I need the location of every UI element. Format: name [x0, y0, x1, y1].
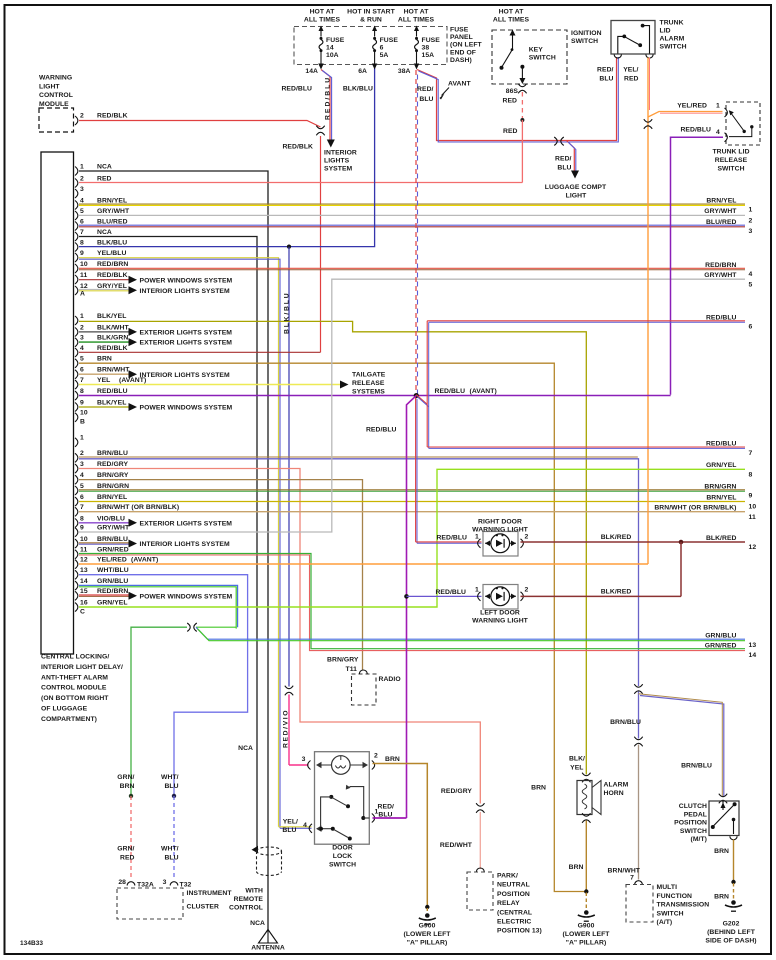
- svg-text:COMPARTMENT): COMPARTMENT): [41, 716, 97, 723]
- svg-text:BLK/BLU: BLK/BLU: [283, 292, 290, 334]
- svg-text:BRN/GRY: BRN/GRY: [97, 472, 129, 479]
- svg-text:WARNING LIGHT: WARNING LIGHT: [472, 618, 529, 625]
- svg-text:RED/BLU: RED/BLU: [366, 427, 397, 434]
- svg-text:RED/BRN: RED/BRN: [97, 261, 128, 268]
- svg-text:BRN/WHT (OR BRN/BLK): BRN/WHT (OR BRN/BLK): [654, 505, 736, 512]
- svg-text:8: 8: [749, 472, 753, 479]
- svg-text:INTERIOR LIGHTS SYSTEM: INTERIOR LIGHTS SYSTEM: [140, 372, 231, 379]
- svg-text:BLU/RED: BLU/RED: [706, 219, 737, 226]
- svg-text:BRN: BRN: [714, 848, 729, 855]
- svg-text:BLK/: BLK/: [569, 756, 585, 763]
- svg-text:BLU: BLU: [599, 76, 613, 83]
- svg-text:6: 6: [80, 367, 84, 374]
- svg-text:1: 1: [716, 103, 720, 110]
- svg-text:BLK/WHT: BLK/WHT: [97, 324, 129, 331]
- svg-text:POWER WINDOWS SYSTEM: POWER WINDOWS SYSTEM: [140, 277, 233, 284]
- svg-text:(LOWER LEFT: (LOWER LEFT: [563, 931, 611, 938]
- svg-text:6: 6: [80, 218, 84, 225]
- svg-text:5: 5: [749, 281, 753, 288]
- svg-text:SYSTEMS: SYSTEMS: [352, 389, 385, 396]
- svg-text:EXTERIOR LIGHTS SYSTEM: EXTERIOR LIGHTS SYSTEM: [140, 340, 233, 347]
- svg-text:DASH): DASH): [450, 57, 472, 64]
- svg-text:4: 4: [80, 345, 84, 352]
- svg-text:RED/BLK: RED/BLK: [282, 144, 313, 151]
- svg-text:FUSE: FUSE: [422, 37, 441, 44]
- svg-text:14A: 14A: [305, 68, 318, 75]
- svg-text:BRN/WHT (OR BRN/BLK): BRN/WHT (OR BRN/BLK): [97, 504, 179, 511]
- svg-text:BRN/BLU: BRN/BLU: [610, 719, 641, 726]
- svg-text:38: 38: [422, 45, 430, 52]
- svg-text:4: 4: [303, 822, 307, 829]
- svg-text:GRY/WHT: GRY/WHT: [704, 272, 737, 279]
- svg-text:FUSE: FUSE: [380, 37, 399, 44]
- svg-text:SWITCH: SWITCH: [529, 55, 556, 62]
- svg-text:T11: T11: [346, 666, 358, 673]
- svg-text:BLU: BLU: [557, 165, 571, 172]
- svg-text:C: C: [80, 609, 85, 616]
- svg-text:WARNING: WARNING: [39, 75, 72, 82]
- svg-text:8: 8: [80, 388, 84, 395]
- svg-text:BRN/YEL: BRN/YEL: [97, 494, 127, 501]
- svg-text:BRN: BRN: [714, 894, 729, 901]
- svg-text:RED/: RED/: [597, 67, 614, 74]
- svg-text:YEL/: YEL/: [283, 819, 298, 826]
- svg-text:13: 13: [749, 642, 757, 649]
- svg-text:10: 10: [749, 504, 757, 511]
- svg-text:16: 16: [80, 600, 88, 607]
- svg-text:7: 7: [80, 377, 84, 384]
- svg-text:WARNING LIGHT: WARNING LIGHT: [472, 526, 529, 533]
- svg-text:INTERIOR LIGHT DELAY/: INTERIOR LIGHT DELAY/: [41, 664, 123, 671]
- svg-text:8: 8: [80, 239, 84, 246]
- svg-text:12: 12: [749, 544, 757, 551]
- svg-text:NCA: NCA: [250, 920, 265, 927]
- svg-text:2: 2: [525, 534, 529, 541]
- svg-text:FUSE: FUSE: [450, 27, 469, 34]
- svg-text:1: 1: [749, 207, 753, 214]
- svg-text:EXTERIOR LIGHTS SYSTEM: EXTERIOR LIGHTS SYSTEM: [140, 330, 233, 337]
- svg-text:86S: 86S: [506, 88, 519, 95]
- svg-text:3: 3: [80, 461, 84, 468]
- svg-text:2: 2: [80, 324, 84, 331]
- svg-text:10: 10: [80, 410, 88, 417]
- svg-text:HOT AT: HOT AT: [404, 9, 430, 16]
- svg-text:11: 11: [80, 547, 87, 554]
- svg-text:BRN/WHT: BRN/WHT: [608, 868, 641, 875]
- svg-text:WHT/BLU: WHT/BLU: [97, 567, 129, 574]
- svg-text:GRN/: GRN/: [117, 846, 134, 853]
- svg-text:RED: RED: [502, 98, 517, 105]
- svg-text:BLK/RED: BLK/RED: [601, 534, 632, 541]
- svg-text:15: 15: [80, 588, 88, 595]
- svg-text:END OF: END OF: [450, 49, 476, 56]
- svg-text:BRN/BLU: BRN/BLU: [97, 450, 128, 457]
- svg-text:5: 5: [80, 483, 84, 490]
- svg-text:CONTROL: CONTROL: [39, 92, 73, 99]
- svg-text:BLK/RED: BLK/RED: [706, 535, 737, 542]
- svg-text:LOCK: LOCK: [333, 853, 352, 860]
- svg-text:RED/BLK: RED/BLK: [97, 272, 128, 279]
- svg-text:RED/BLU: RED/BLU: [435, 589, 466, 596]
- svg-text:7: 7: [749, 450, 753, 457]
- svg-text:GRN/YEL: GRN/YEL: [706, 462, 737, 469]
- svg-text:RED/WHT: RED/WHT: [440, 842, 473, 849]
- svg-text:RED/BLU: RED/BLU: [324, 76, 331, 120]
- svg-text:5: 5: [80, 356, 84, 363]
- svg-text:11: 11: [749, 514, 756, 521]
- svg-text:ELECTRIC: ELECTRIC: [497, 919, 531, 926]
- svg-text:LIGHTS: LIGHTS: [324, 158, 350, 165]
- svg-text:BRN/WHT: BRN/WHT: [97, 367, 130, 374]
- svg-text:CENTRAL LOCKING/: CENTRAL LOCKING/: [41, 654, 109, 661]
- svg-text:ALL TIMES: ALL TIMES: [493, 17, 530, 24]
- svg-text:1: 1: [80, 163, 84, 170]
- svg-text:11: 11: [80, 272, 87, 279]
- svg-text:SWITCH: SWITCH: [657, 910, 684, 917]
- svg-text:RED/BLK: RED/BLK: [97, 113, 128, 120]
- svg-text:GRY/WHT: GRY/WHT: [97, 208, 130, 215]
- svg-text:BLU: BLU: [164, 855, 178, 862]
- svg-text:WITH: WITH: [245, 888, 263, 895]
- svg-text:4: 4: [716, 129, 720, 136]
- svg-text:SIDE OF DASH): SIDE OF DASH): [705, 938, 756, 945]
- svg-text:YEL: YEL: [97, 377, 110, 384]
- svg-text:BLU: BLU: [282, 827, 296, 834]
- svg-text:15A: 15A: [422, 52, 435, 59]
- svg-text:RED/: RED/: [417, 86, 434, 93]
- svg-text:GRN/YEL: GRN/YEL: [97, 600, 128, 607]
- svg-text:4: 4: [80, 472, 84, 479]
- svg-text:2: 2: [80, 450, 84, 457]
- svg-text:ANTENNA: ANTENNA: [251, 945, 285, 952]
- svg-text:RELEASE: RELEASE: [352, 380, 385, 387]
- svg-text:GRN/BLU: GRN/BLU: [705, 633, 736, 640]
- svg-text:10: 10: [80, 536, 88, 543]
- svg-text:YEL/RED: YEL/RED: [677, 103, 707, 110]
- svg-text:9: 9: [80, 525, 84, 532]
- svg-text:RED: RED: [120, 855, 135, 862]
- svg-text:RED/: RED/: [378, 804, 395, 811]
- svg-text:G900: G900: [419, 923, 436, 930]
- svg-text:POSITION 13): POSITION 13): [497, 928, 542, 935]
- svg-text:WHT/: WHT/: [161, 774, 179, 781]
- svg-text:SWITCH: SWITCH: [717, 166, 744, 173]
- svg-text:7: 7: [80, 229, 84, 236]
- svg-text:ANTI-THEFT ALARM: ANTI-THEFT ALARM: [41, 674, 108, 681]
- svg-text:& RUN: & RUN: [360, 17, 382, 24]
- svg-text:RELAY: RELAY: [497, 900, 520, 907]
- svg-text:BRN: BRN: [120, 783, 135, 790]
- svg-text:RED/GRY: RED/GRY: [441, 788, 472, 795]
- svg-text:14: 14: [749, 652, 757, 659]
- svg-text:3: 3: [163, 879, 167, 886]
- svg-text:134B33: 134B33: [20, 940, 43, 947]
- svg-text:HOT IN START: HOT IN START: [347, 9, 395, 16]
- svg-text:MULTI: MULTI: [657, 884, 678, 891]
- svg-text:SWITCH: SWITCH: [571, 38, 598, 45]
- svg-text:BRN: BRN: [531, 785, 546, 792]
- svg-text:CONTROL MODULE: CONTROL MODULE: [41, 685, 107, 692]
- svg-text:GRY/WHT: GRY/WHT: [704, 208, 737, 215]
- svg-text:ALARM: ALARM: [660, 36, 685, 43]
- svg-text:YEL/RED: YEL/RED: [97, 557, 127, 564]
- svg-text:WHT/: WHT/: [161, 846, 179, 853]
- svg-text:INTERIOR LIGHTS SYSTEM: INTERIOR LIGHTS SYSTEM: [140, 541, 231, 548]
- svg-text:POWER WINDOWS SYSTEM: POWER WINDOWS SYSTEM: [140, 593, 233, 600]
- svg-text:POSITION: POSITION: [674, 820, 707, 827]
- svg-text:"A" PILLAR): "A" PILLAR): [566, 940, 607, 947]
- svg-text:CONTROL: CONTROL: [229, 905, 263, 912]
- svg-text:REMOTE: REMOTE: [234, 896, 264, 903]
- svg-text:AVANT: AVANT: [448, 81, 471, 88]
- svg-text:GRN/RED: GRN/RED: [705, 642, 737, 649]
- svg-text:(A/T): (A/T): [657, 919, 673, 926]
- svg-text:1: 1: [475, 534, 479, 541]
- svg-text:EXTERIOR LIGHTS SYSTEM: EXTERIOR LIGHTS SYSTEM: [140, 520, 233, 527]
- svg-text:(LOWER LEFT: (LOWER LEFT: [404, 931, 452, 938]
- svg-text:BLU: BLU: [164, 783, 178, 790]
- svg-text:2: 2: [749, 218, 753, 225]
- svg-text:BRN: BRN: [97, 356, 112, 363]
- svg-text:POWER WINDOWS SYSTEM: POWER WINDOWS SYSTEM: [140, 405, 233, 412]
- svg-text:(AVANT): (AVANT): [470, 388, 497, 395]
- svg-text:3: 3: [80, 186, 84, 193]
- svg-text:10: 10: [80, 261, 88, 268]
- svg-text:6: 6: [749, 324, 753, 331]
- svg-text:NEUTRAL: NEUTRAL: [497, 882, 530, 889]
- svg-text:G900: G900: [578, 923, 595, 930]
- svg-text:B: B: [80, 419, 85, 426]
- svg-text:7: 7: [80, 504, 84, 511]
- svg-text:BLK/GRN: BLK/GRN: [97, 335, 128, 342]
- svg-text:RED/VIO: RED/VIO: [282, 709, 289, 748]
- svg-text:(CENTRAL: (CENTRAL: [497, 909, 532, 916]
- svg-text:OF LUGGAGE: OF LUGGAGE: [41, 706, 88, 713]
- svg-text:LID: LID: [660, 28, 671, 35]
- svg-text:RED/BLU: RED/BLU: [97, 388, 128, 395]
- svg-text:(M/T): (M/T): [691, 836, 707, 843]
- svg-text:BRN/BLU: BRN/BLU: [97, 536, 128, 543]
- svg-text:NCA: NCA: [97, 163, 112, 170]
- svg-text:RED/BLU: RED/BLU: [436, 535, 467, 542]
- svg-text:14: 14: [326, 45, 334, 52]
- svg-text:RED/BLU: RED/BLU: [281, 86, 312, 93]
- svg-text:HORN: HORN: [604, 790, 624, 797]
- svg-text:BRN/GRY: BRN/GRY: [327, 657, 359, 664]
- svg-text:38A: 38A: [398, 68, 411, 75]
- svg-text:ALL TIMES: ALL TIMES: [398, 17, 435, 24]
- svg-text:YEL/: YEL/: [623, 67, 638, 74]
- svg-text:3: 3: [749, 228, 753, 235]
- svg-text:BRN/YEL: BRN/YEL: [97, 197, 127, 204]
- svg-text:BRN/BLU: BRN/BLU: [681, 763, 712, 770]
- svg-text:FUNCTION: FUNCTION: [657, 893, 693, 900]
- svg-text:INTERIOR: INTERIOR: [324, 150, 357, 157]
- svg-text:BLK/YEL: BLK/YEL: [97, 399, 126, 406]
- svg-text:6: 6: [80, 494, 84, 501]
- svg-text:9: 9: [80, 250, 84, 257]
- svg-text:RED/BLU: RED/BLU: [680, 127, 711, 134]
- svg-text:BLK/BLU: BLK/BLU: [343, 86, 373, 93]
- svg-text:DOOR: DOOR: [332, 845, 353, 852]
- svg-text:SWITCH: SWITCH: [660, 44, 687, 51]
- svg-text:A: A: [80, 291, 85, 298]
- svg-text:GRN/: GRN/: [117, 774, 134, 781]
- svg-text:RADIO: RADIO: [379, 676, 401, 683]
- svg-text:5A: 5A: [380, 52, 389, 59]
- svg-text:TRUNK LID: TRUNK LID: [712, 149, 749, 156]
- svg-text:1: 1: [80, 435, 84, 442]
- svg-text:LEFT DOOR: LEFT DOOR: [480, 610, 520, 617]
- svg-text:CLUTCH: CLUTCH: [679, 803, 707, 810]
- svg-text:4: 4: [80, 197, 84, 204]
- svg-text:12: 12: [80, 557, 88, 564]
- svg-text:RED/GRY: RED/GRY: [97, 461, 128, 468]
- svg-text:FUSE: FUSE: [326, 37, 345, 44]
- svg-text:MODULE: MODULE: [39, 101, 69, 108]
- svg-text:1: 1: [80, 313, 84, 320]
- svg-text:RED/BRN: RED/BRN: [705, 262, 736, 269]
- svg-text:ALARM: ALARM: [604, 782, 629, 789]
- svg-text:2: 2: [80, 113, 84, 120]
- svg-text:6A: 6A: [358, 68, 367, 75]
- svg-text:5: 5: [80, 208, 84, 215]
- svg-text:(AVANT): (AVANT): [119, 377, 146, 384]
- svg-text:(BEHIND LEFT: (BEHIND LEFT: [707, 929, 756, 936]
- svg-text:LUGGAGE COMPT: LUGGAGE COMPT: [545, 184, 607, 191]
- svg-text:PARK/: PARK/: [497, 873, 518, 880]
- svg-text:2: 2: [80, 175, 84, 182]
- svg-text:3: 3: [302, 756, 306, 763]
- svg-text:KEY: KEY: [529, 47, 544, 54]
- svg-text:BLU: BLU: [419, 96, 433, 103]
- svg-text:GRN/BLU: GRN/BLU: [97, 578, 128, 585]
- svg-text:BLK/BLU: BLK/BLU: [97, 239, 127, 246]
- svg-text:GRN/RED: GRN/RED: [97, 547, 129, 554]
- svg-text:VIO/BLU: VIO/BLU: [97, 515, 125, 522]
- svg-text:RIGHT DOOR: RIGHT DOOR: [478, 519, 522, 526]
- svg-text:HOT AT: HOT AT: [310, 9, 336, 16]
- svg-text:"A" PILLAR): "A" PILLAR): [407, 940, 448, 947]
- svg-text:GRY/WHT: GRY/WHT: [97, 525, 130, 532]
- svg-text:RED: RED: [503, 128, 518, 135]
- svg-text:BRN: BRN: [569, 864, 584, 871]
- svg-text:YEL: YEL: [570, 765, 583, 772]
- svg-text:13: 13: [80, 567, 88, 574]
- svg-text:BRN/GRN: BRN/GRN: [704, 483, 736, 490]
- svg-text:RED/BRN: RED/BRN: [97, 588, 128, 595]
- svg-text:TRANSMISSION: TRANSMISSION: [657, 902, 710, 909]
- svg-text:9: 9: [749, 493, 753, 500]
- svg-text:BRN/GRN: BRN/GRN: [97, 483, 129, 490]
- svg-text:(ON BOTTOM RIGHT: (ON BOTTOM RIGHT: [41, 695, 109, 702]
- svg-text:BRN/YEL: BRN/YEL: [706, 494, 736, 501]
- svg-text:BLK/YEL: BLK/YEL: [97, 313, 126, 320]
- svg-text:(AVANT): (AVANT): [131, 557, 158, 564]
- svg-text:ALL TIMES: ALL TIMES: [304, 17, 341, 24]
- svg-text:TRUNK: TRUNK: [660, 20, 684, 27]
- svg-text:8: 8: [80, 515, 84, 522]
- svg-text:SYSTEM: SYSTEM: [324, 166, 353, 173]
- svg-text:28: 28: [118, 879, 126, 886]
- svg-text:RED/BLU: RED/BLU: [435, 388, 466, 395]
- svg-text:YEL/BLU: YEL/BLU: [97, 250, 126, 257]
- svg-text:(ON LEFT: (ON LEFT: [450, 42, 483, 49]
- svg-text:TAILGATE: TAILGATE: [352, 372, 386, 379]
- svg-text:PEDAL: PEDAL: [684, 811, 707, 818]
- svg-text:RED: RED: [624, 76, 639, 83]
- svg-text:SWITCH: SWITCH: [329, 862, 356, 869]
- svg-text:RED/BLK: RED/BLK: [97, 345, 128, 352]
- svg-text:PANEL: PANEL: [450, 34, 473, 41]
- svg-text:BLU/RED: BLU/RED: [97, 218, 128, 225]
- svg-text:LIGHT: LIGHT: [566, 193, 587, 200]
- svg-text:RED/: RED/: [555, 156, 572, 163]
- svg-text:2: 2: [525, 587, 529, 594]
- svg-text:3: 3: [80, 335, 84, 342]
- svg-text:4: 4: [749, 271, 753, 278]
- svg-text:6: 6: [380, 45, 384, 52]
- svg-text:9: 9: [80, 399, 84, 406]
- svg-text:1: 1: [475, 587, 479, 594]
- svg-text:IGNITION: IGNITION: [571, 30, 602, 37]
- svg-text:14: 14: [80, 578, 88, 585]
- svg-text:BLK/RED: BLK/RED: [601, 589, 632, 596]
- svg-text:CLUSTER: CLUSTER: [187, 904, 219, 911]
- svg-text:BRN: BRN: [385, 756, 400, 763]
- svg-text:BRN/YEL: BRN/YEL: [706, 197, 736, 204]
- svg-text:RED: RED: [97, 175, 112, 182]
- svg-text:INSTRUMENT: INSTRUMENT: [187, 890, 233, 897]
- svg-text:LIGHT: LIGHT: [39, 83, 60, 90]
- svg-text:INTERIOR LIGHTS SYSTEM: INTERIOR LIGHTS SYSTEM: [140, 288, 231, 295]
- svg-text:NCA: NCA: [97, 229, 112, 236]
- svg-text:HOT AT: HOT AT: [499, 9, 525, 16]
- svg-text:POSITION: POSITION: [497, 891, 530, 898]
- svg-text:10A: 10A: [326, 52, 339, 59]
- svg-text:7: 7: [630, 875, 634, 882]
- svg-text:G202: G202: [723, 921, 740, 928]
- svg-text:2: 2: [374, 753, 378, 760]
- svg-text:RELEASE: RELEASE: [715, 157, 748, 164]
- svg-text:SWITCH: SWITCH: [680, 828, 707, 835]
- svg-text:NCA: NCA: [238, 745, 253, 752]
